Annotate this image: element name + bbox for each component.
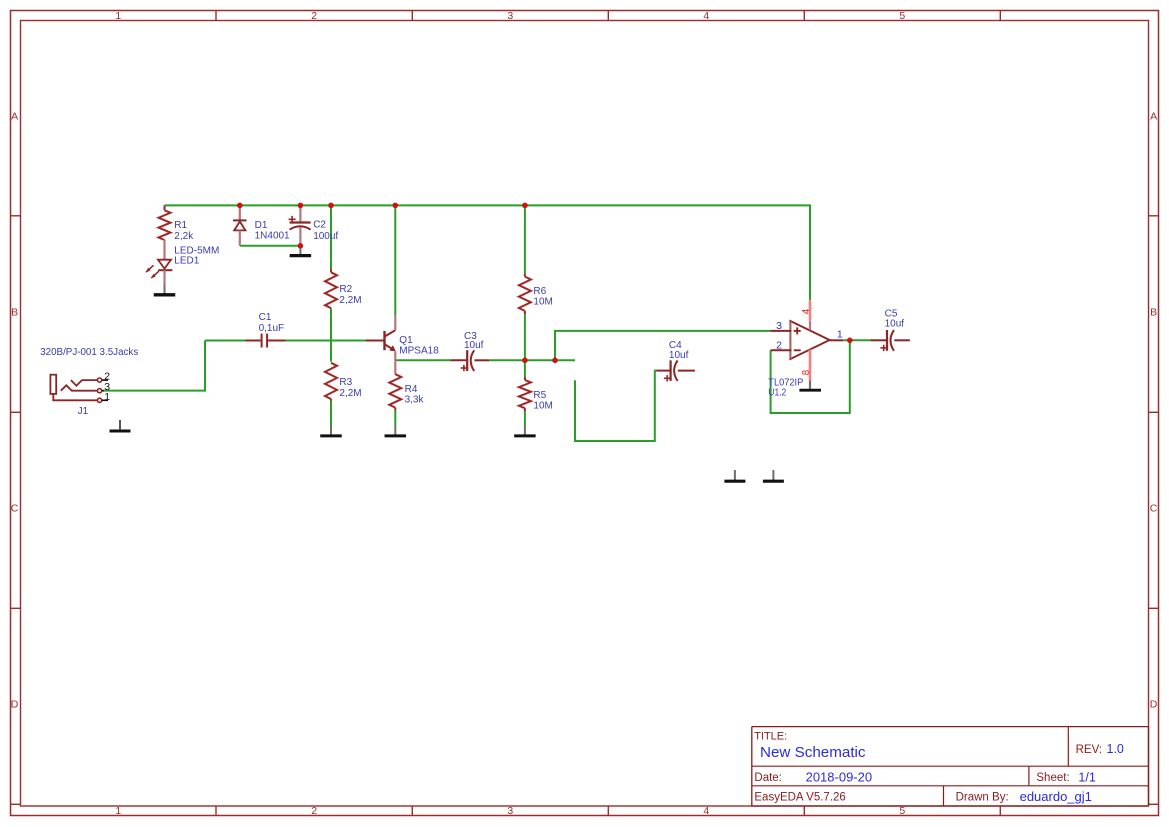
svg-text:8: 8 <box>801 369 812 375</box>
svg-text:2,2M: 2,2M <box>339 388 361 399</box>
svg-text:R3: R3 <box>339 377 352 388</box>
svg-text:A: A <box>11 110 18 122</box>
svg-text:eduardo_gj1: eduardo_gj1 <box>1020 789 1092 804</box>
svg-text:5: 5 <box>899 805 905 817</box>
svg-text:MPSA18: MPSA18 <box>399 346 439 357</box>
svg-text:3: 3 <box>507 10 513 22</box>
svg-text:1: 1 <box>104 391 110 403</box>
svg-text:C1: C1 <box>259 312 272 323</box>
svg-text:5: 5 <box>899 10 905 22</box>
svg-text:1: 1 <box>115 805 121 817</box>
svg-text:0,1uF: 0,1uF <box>259 323 285 334</box>
svg-text:C2: C2 <box>313 220 326 231</box>
svg-text:3,3k: 3,3k <box>405 394 425 405</box>
svg-text:TITLE:: TITLE: <box>754 731 787 743</box>
svg-text:B: B <box>11 306 18 318</box>
svg-text:4: 4 <box>703 10 709 22</box>
svg-text:New Schematic: New Schematic <box>760 744 866 761</box>
svg-text:2,2k: 2,2k <box>174 231 194 242</box>
svg-text:Drawn By:: Drawn By: <box>956 791 1009 803</box>
svg-text:J1: J1 <box>78 406 89 417</box>
svg-text:4: 4 <box>801 308 812 314</box>
svg-text:R4: R4 <box>405 384 418 395</box>
svg-text:100uf: 100uf <box>313 231 338 242</box>
svg-text:1.0: 1.0 <box>1107 742 1124 756</box>
svg-text:3: 3 <box>507 805 513 817</box>
svg-text:Q1: Q1 <box>399 335 413 346</box>
svg-text:D: D <box>11 699 19 711</box>
svg-text:Date:: Date: <box>754 772 782 784</box>
svg-text:R6: R6 <box>533 286 546 297</box>
svg-text:2,2M: 2,2M <box>339 295 361 306</box>
svg-text:10uf: 10uf <box>464 340 484 351</box>
svg-text:10M: 10M <box>533 296 552 307</box>
svg-text:R2: R2 <box>339 284 352 295</box>
svg-text:Sheet:: Sheet: <box>1036 772 1069 784</box>
svg-text:D: D <box>1150 699 1158 711</box>
svg-text:1: 1 <box>837 329 843 341</box>
svg-text:1: 1 <box>115 10 121 22</box>
svg-text:1/1: 1/1 <box>1078 770 1095 784</box>
svg-text:2: 2 <box>311 805 317 817</box>
svg-text:10M: 10M <box>533 400 552 411</box>
svg-text:320B/PJ-001 3.5Jacks: 320B/PJ-001 3.5Jacks <box>40 347 138 358</box>
svg-text:D1: D1 <box>255 220 268 231</box>
svg-text:10uf: 10uf <box>885 319 905 330</box>
svg-text:U1.2: U1.2 <box>768 388 786 399</box>
svg-text:R1: R1 <box>174 220 187 231</box>
svg-text:3: 3 <box>776 320 782 332</box>
svg-text:2: 2 <box>311 10 317 22</box>
svg-text:C: C <box>11 503 19 515</box>
svg-text:B: B <box>1150 306 1157 318</box>
svg-text:C: C <box>1150 503 1158 515</box>
svg-text:2018-09-20: 2018-09-20 <box>806 769 873 784</box>
svg-text:REV:: REV: <box>1076 744 1102 756</box>
svg-text:10uf: 10uf <box>669 350 689 361</box>
svg-text:2: 2 <box>776 340 782 352</box>
svg-text:EasyEDA V5.7.26: EasyEDA V5.7.26 <box>754 791 845 803</box>
svg-text:LED1: LED1 <box>174 255 199 266</box>
svg-text:1N4001: 1N4001 <box>255 230 290 241</box>
svg-text:4: 4 <box>703 805 709 817</box>
svg-text:A: A <box>1150 110 1157 122</box>
